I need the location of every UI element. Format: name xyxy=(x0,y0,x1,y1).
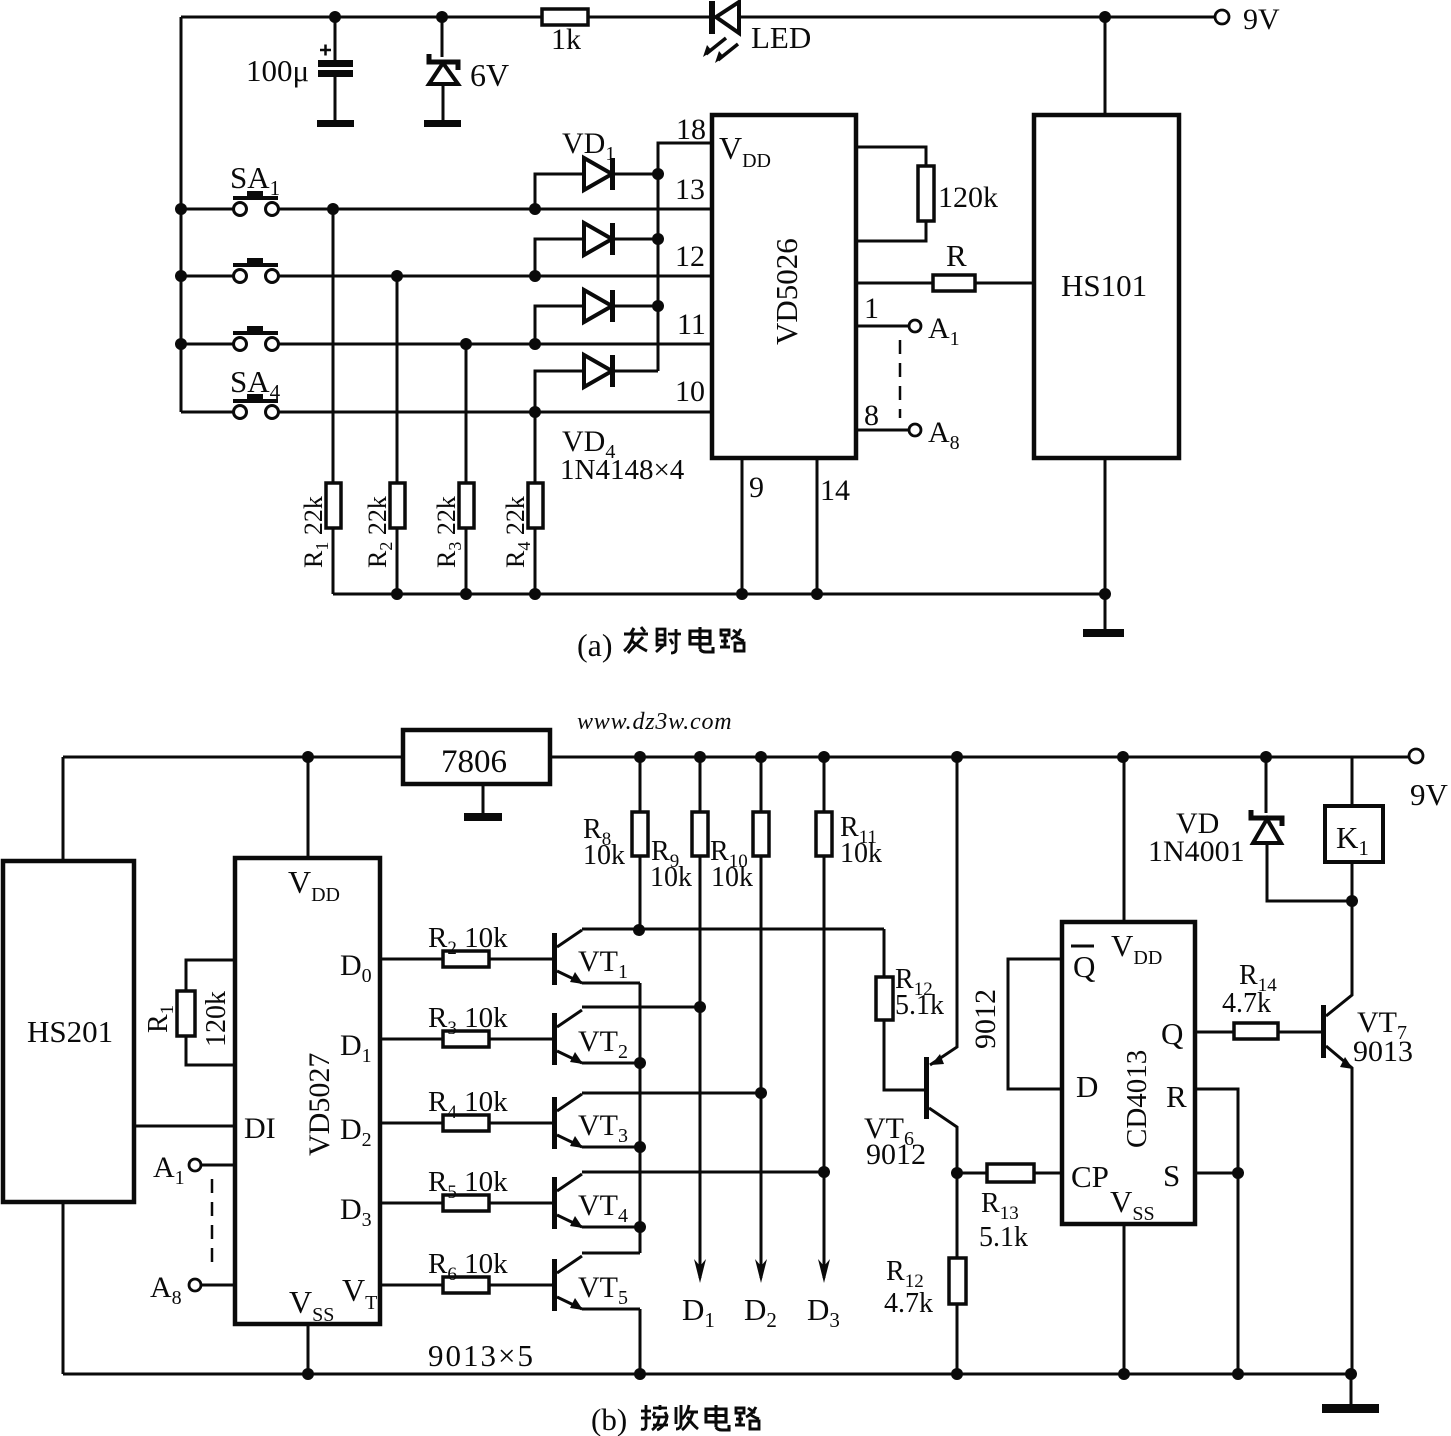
resistor 120k xyxy=(856,147,998,241)
svg-text:DI: DI xyxy=(244,1112,276,1145)
svg-text:1: 1 xyxy=(864,292,879,325)
IC U6 CD4013 xyxy=(1062,922,1195,1225)
wire: VD5027 VDD pin to bus xyxy=(307,757,310,858)
svg-text:14: 14 xyxy=(820,474,850,507)
resistor 1k xyxy=(542,9,588,56)
wire: CD4013 VSS pin xyxy=(1123,1224,1126,1374)
svg-text:HS101: HS101 xyxy=(1061,268,1147,303)
IC U2 HS101 xyxy=(1034,115,1179,458)
resistor R4 22k xyxy=(501,412,543,594)
svg-text:R4 22k: R4 22k xyxy=(501,496,534,568)
svg-text:10k: 10k xyxy=(650,862,692,893)
LED xyxy=(703,1,811,63)
svg-text:R: R xyxy=(1166,1079,1187,1114)
wire: ground bus (b) xyxy=(63,1368,1357,1380)
svg-text:9: 9 xyxy=(749,471,764,504)
resistor R14 4.7k xyxy=(1195,960,1321,1039)
svg-text:10k: 10k xyxy=(711,862,753,893)
svg-text:S: S xyxy=(1163,1158,1180,1193)
resistor R5 10k xyxy=(380,1166,552,1211)
ground (b) xyxy=(1322,1374,1379,1413)
svg-text:120k: 120k xyxy=(201,991,232,1047)
svg-text:VD5027: VD5027 xyxy=(303,1053,336,1156)
svg-text:CD4013: CD4013 xyxy=(1121,1050,1153,1148)
switch SA3 xyxy=(181,326,712,351)
resistor R8 10k xyxy=(583,757,648,930)
svg-text:8: 8 xyxy=(864,399,879,432)
svg-text:R: R xyxy=(946,238,967,273)
pin 8 / node A8 xyxy=(856,399,960,454)
svg-text:7806: 7806 xyxy=(441,744,507,780)
wire: emitter rail VT1-VT4 to VT5 collector xyxy=(582,983,646,1253)
svg-text:5.1k: 5.1k xyxy=(979,1222,1028,1253)
wire: diode cathode rail to pin 18 xyxy=(652,143,712,371)
transistor VT2 9013 xyxy=(552,1007,700,1065)
node: top bus junction dots (b) xyxy=(302,751,1272,763)
resistor R1 120k (osc) xyxy=(143,960,235,1065)
svg-text:CP: CP xyxy=(1071,1159,1109,1194)
svg-text:R2 22k: R2 22k xyxy=(363,496,396,568)
switch SA1 xyxy=(181,160,712,216)
IC U1 VD5026 xyxy=(712,115,856,458)
ground (a) xyxy=(1083,594,1124,637)
diode VD1 1N4148 xyxy=(535,127,658,209)
resistor R12 5.1k xyxy=(876,929,944,1090)
svg-text:9012: 9012 xyxy=(969,989,1002,1049)
IC U5 VD5027 xyxy=(235,858,380,1326)
wire: top 9V bus (a) xyxy=(181,17,1215,412)
svg-text:www.dz3w.com: www.dz3w.com xyxy=(577,709,732,735)
svg-text:HS201: HS201 xyxy=(27,1014,113,1049)
svg-text:R4 10k: R4 10k xyxy=(428,1086,508,1123)
diode VD4 1N4148 xyxy=(535,355,685,486)
svg-text:9013×5: 9013×5 xyxy=(428,1338,535,1373)
svg-text:10: 10 xyxy=(675,375,705,408)
svg-text:9013: 9013 xyxy=(1353,1035,1413,1068)
node D3 output arrow xyxy=(807,1172,840,1332)
resistor R13 5.1k xyxy=(951,1164,1062,1253)
regulator U3 7806 xyxy=(403,730,550,784)
svg-text:Q: Q xyxy=(1073,949,1095,984)
svg-text:(a): (a) xyxy=(577,627,613,663)
transistor VT3 9013 xyxy=(552,1093,761,1149)
capacitor 100u xyxy=(246,17,354,127)
resistor R11 10k xyxy=(816,757,882,1172)
wire: VD5026 pin 14 xyxy=(817,458,850,594)
svg-text:1k: 1k xyxy=(551,23,581,56)
node: switch row junction dots xyxy=(327,203,541,418)
svg-text:5.1k: 5.1k xyxy=(895,990,944,1021)
node: 9V terminal (a) xyxy=(1215,3,1280,36)
svg-text:6V: 6V xyxy=(470,57,509,93)
wire: HS201 bottom to ground bus xyxy=(62,1202,65,1374)
svg-text:10k: 10k xyxy=(583,840,625,871)
resistor R12b 4.7k xyxy=(884,1173,966,1374)
wire: R and S to ground rail xyxy=(1195,1089,1244,1374)
resistor R1 22k xyxy=(299,209,341,594)
ground 7806 xyxy=(464,784,502,821)
wire: dashed A1-A8 xyxy=(899,340,902,418)
wire: CD4013 VDD pin xyxy=(1123,757,1126,922)
resistor R2 10k xyxy=(380,922,552,967)
svg-text:12: 12 xyxy=(675,240,705,273)
transistor VT1 9013 xyxy=(552,929,884,985)
wire: DI input xyxy=(134,1125,235,1128)
switch SA4 xyxy=(181,364,712,419)
caption (a) transmitter circuit xyxy=(577,627,744,663)
svg-text:9V: 9V xyxy=(1410,777,1449,812)
wire: dashed A1-A8 (b) xyxy=(211,1179,214,1271)
wire: HS101 to 9V bus xyxy=(1104,17,1107,115)
svg-text:R5 10k: R5 10k xyxy=(428,1166,508,1203)
node: collector row junction dots xyxy=(633,924,830,1178)
switch SA2 xyxy=(181,258,712,283)
svg-text:R6 10k: R6 10k xyxy=(428,1248,508,1285)
svg-text:13: 13 xyxy=(675,173,705,206)
wire: ground bus (a) xyxy=(333,588,1111,600)
caption (b) receiver circuit xyxy=(591,1402,759,1436)
svg-text:4.7k: 4.7k xyxy=(884,1288,933,1319)
svg-text:R3 22k: R3 22k xyxy=(432,496,465,568)
wire: VT5 emitter to ground bus xyxy=(582,1309,640,1374)
wire: VD5026 pin 9 xyxy=(742,458,764,594)
transistor VT5 9013 xyxy=(552,1227,640,1311)
svg-text:VD5026: VD5026 xyxy=(769,238,804,345)
resistor R4 10k xyxy=(380,1086,552,1131)
svg-text:11: 11 xyxy=(677,308,706,341)
svg-text:D: D xyxy=(1076,1069,1098,1104)
svg-text:1N4148×4: 1N4148×4 xyxy=(560,454,685,486)
svg-text:120k: 120k xyxy=(938,181,998,214)
svg-text:(b): (b) xyxy=(591,1402,627,1436)
svg-text:9V: 9V xyxy=(1243,3,1280,36)
resistor R6 10k xyxy=(380,1248,552,1293)
svg-text:100μ: 100μ xyxy=(246,53,309,88)
svg-text:1N4001: 1N4001 xyxy=(1148,835,1245,868)
svg-text:4.7k: 4.7k xyxy=(1222,988,1271,1019)
diode VD2 1N4148 xyxy=(535,223,658,276)
resistor R2 22k xyxy=(363,276,405,594)
svg-text:Q: Q xyxy=(1161,1016,1183,1051)
wire: Qbar to D loop xyxy=(1008,959,1062,1089)
transistor VT6 9012 xyxy=(864,757,957,1173)
resistor R3 22k xyxy=(432,344,474,594)
svg-text:10k: 10k xyxy=(840,838,882,869)
diode VD3 1N4148 xyxy=(535,290,658,344)
relay K1 xyxy=(1325,757,1383,907)
node: top bus junction dots (a) xyxy=(329,11,1111,23)
node A1 (b) xyxy=(153,1151,235,1189)
svg-text:R1 22k: R1 22k xyxy=(299,496,332,568)
diode VD 1N4001 xyxy=(1148,757,1352,901)
svg-text:R3 10k: R3 10k xyxy=(428,1002,508,1039)
zener diode 6V xyxy=(424,17,509,127)
svg-text:9012: 9012 xyxy=(866,1138,926,1171)
wire: top 9V bus (b) xyxy=(63,757,1409,861)
node: switch rail dots xyxy=(175,203,187,350)
resistor R xyxy=(856,238,1034,291)
node D1 output arrow xyxy=(682,1007,715,1332)
wire: HS101 to ground bus xyxy=(1104,458,1107,594)
transistor VT7 9013 xyxy=(1321,901,1413,1374)
node: 9V terminal (b) xyxy=(1409,749,1449,812)
IC U4 HS201 xyxy=(3,861,134,1202)
node A8 (b) xyxy=(150,1271,235,1309)
svg-text:LED: LED xyxy=(751,20,811,55)
wire: VD5027 VSS pin to ground bus xyxy=(307,1324,310,1374)
node D2 output arrow xyxy=(744,1093,777,1332)
resistor R3 10k xyxy=(380,1002,552,1047)
resistor R9 10k xyxy=(650,757,708,1007)
resistor R10 10k xyxy=(710,757,769,1093)
svg-text:18: 18 xyxy=(676,113,706,146)
pin 1 / node A1 xyxy=(856,292,960,350)
transistor VT4 9013 xyxy=(552,1172,824,1229)
svg-text:R2 10k: R2 10k xyxy=(428,922,508,959)
